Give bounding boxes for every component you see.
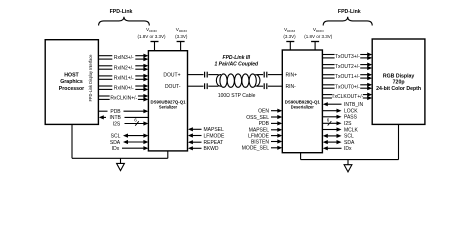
wire RxIN2+/- differential pair xyxy=(98,64,148,72)
node FPD-Link label right xyxy=(338,9,361,15)
wire I2S deserializer output bus xyxy=(322,117,352,127)
wire host ground stub xyxy=(71,124,73,158)
svg-text:1 Pair/AC Coupled: 1 Pair/AC Coupled xyxy=(214,61,259,67)
power VDDIO deserializer label xyxy=(304,27,333,39)
svg-text:PDB: PDB xyxy=(110,109,121,115)
power VDDIO deserializer pin xyxy=(311,42,319,51)
svg-text:(3.3V): (3.3V) xyxy=(283,34,296,39)
wire OEN deserializer input xyxy=(258,109,282,115)
power VDDIO serializer label xyxy=(137,27,166,39)
svg-text:TxOUT0+/-: TxOUT0+/- xyxy=(335,84,360,90)
wire serializer ground stub xyxy=(167,151,169,158)
wire SDA deserializer bidirectional xyxy=(323,140,355,146)
svg-text:INTB_IN: INTB_IN xyxy=(344,102,364,108)
svg-text:VDDIO: VDDIO xyxy=(313,27,325,33)
wire LFMODE serializer input xyxy=(188,133,225,139)
svg-text:SCL: SCL xyxy=(344,134,354,140)
cable 100-ohm STP twisted pair xyxy=(216,74,260,87)
pin DOUT- label xyxy=(165,84,181,90)
svg-text:MCLK: MCLK xyxy=(344,127,359,133)
svg-text:OSS_SEL: OSS_SEL xyxy=(246,115,269,121)
wire LFMODE deserializer input xyxy=(248,133,282,139)
power VDD33 deserializer pin xyxy=(286,42,294,51)
wire SCL deserializer bidirectional xyxy=(323,134,354,140)
svg-text:I2S: I2S xyxy=(113,121,121,127)
svg-text:720p: 720p xyxy=(393,80,405,86)
power VDDIO serializer pin xyxy=(151,42,159,51)
svg-text:PASS: PASS xyxy=(344,115,358,121)
wire BKWD serializer input xyxy=(188,146,219,152)
wire DOUT- line left xyxy=(188,85,204,87)
svg-text:Processor: Processor xyxy=(59,86,84,92)
svg-text:Deserializer: Deserializer xyxy=(291,105,314,110)
wire RIN+ cable to cap xyxy=(257,74,263,76)
wire display ground stub xyxy=(398,124,400,159)
wire LOCK deserializer output xyxy=(322,109,358,115)
block U1 HOST Graphics Processor xyxy=(45,40,98,125)
pin RIN- label xyxy=(286,84,297,90)
svg-text:FPD-Link Display Interface: FPD-Link Display Interface xyxy=(88,54,93,101)
svg-text:TxCLKOUT+/-: TxCLKOUT+/- xyxy=(331,94,363,100)
wire left ground rail xyxy=(72,157,168,159)
svg-text:DOUT-: DOUT- xyxy=(165,84,181,90)
wire BISTEN deserializer input xyxy=(251,139,282,145)
svg-text:100Ω STP Cable: 100Ω STP Cable xyxy=(218,93,256,99)
wire RIN- line right xyxy=(268,85,282,87)
node FPD-Link brace left xyxy=(99,17,150,26)
svg-text:FPD-Link III: FPD-Link III xyxy=(223,55,251,61)
svg-text:Graphics: Graphics xyxy=(60,79,83,85)
power VDD33 serializer pin xyxy=(177,42,185,51)
svg-text:(3.3V): (3.3V) xyxy=(175,34,188,39)
wire OSS_SEL deserializer input xyxy=(246,115,282,121)
power VDD33 deserializer label xyxy=(283,27,296,39)
wire IDx serializer input xyxy=(112,146,149,152)
svg-text:RIN-: RIN- xyxy=(286,84,297,90)
svg-text:LFMODE: LFMODE xyxy=(204,133,226,139)
power VDD33 serializer label xyxy=(175,27,188,39)
svg-text:IDx: IDx xyxy=(344,146,352,152)
block U2 DS90UB927Q-Q1 Serializer xyxy=(148,51,187,151)
svg-text:BISTEN: BISTEN xyxy=(251,139,269,145)
svg-text:(1.8V or 3.3V): (1.8V or 3.3V) xyxy=(304,34,333,39)
svg-text:TxOUT1+/-: TxOUT1+/- xyxy=(335,74,360,80)
wire PDB deserializer input xyxy=(259,121,283,127)
svg-text:24-bit Color Depth: 24-bit Color Depth xyxy=(376,86,421,92)
svg-text:REPEAT: REPEAT xyxy=(204,140,224,146)
svg-text:BKWD: BKWD xyxy=(204,146,219,152)
svg-text:VDDIO: VDDIO xyxy=(146,27,158,33)
wire DOUT- to cable xyxy=(208,85,218,87)
svg-text:RxIN0+/-: RxIN0+/- xyxy=(114,86,134,92)
wire TxOUT3+/- differential pair xyxy=(322,52,372,60)
wire TxOUT0+/- differential pair xyxy=(322,83,372,91)
capacitor C1 AC coupling DOUT+ xyxy=(205,72,208,78)
wire PDB serializer input xyxy=(98,109,148,115)
wire I2S serializer input bus xyxy=(113,118,149,128)
node FPD-Link label left xyxy=(110,9,133,15)
wire MODE_SEL deserializer input xyxy=(242,146,283,152)
svg-text:VDD33: VDD33 xyxy=(284,27,295,33)
svg-text:TxOUT2+/-: TxOUT2+/- xyxy=(335,64,360,70)
svg-text:(1.8V or 3.3V): (1.8V or 3.3V) xyxy=(137,34,166,39)
svg-text:OEN: OEN xyxy=(258,109,269,115)
svg-text:TxOUT3+/-: TxOUT3+/- xyxy=(335,54,360,60)
wire deserializer ground stub xyxy=(300,153,302,160)
svg-text:RxCLKIN+/-: RxCLKIN+/- xyxy=(110,96,137,102)
svg-text:6: 6 xyxy=(327,117,330,122)
wire RIN- cable to cap xyxy=(257,85,263,87)
svg-text:LOCK: LOCK xyxy=(344,109,358,115)
svg-text:RGB Display: RGB Display xyxy=(383,73,415,79)
svg-text:SCL: SCL xyxy=(111,133,121,139)
wire INTB_IN deserializer input xyxy=(323,102,364,108)
svg-text:VDD33: VDD33 xyxy=(176,27,187,33)
wire SCL serializer bidirectional xyxy=(111,133,149,139)
svg-text:Serializer: Serializer xyxy=(159,105,178,110)
svg-text:HOST: HOST xyxy=(64,72,79,78)
svg-text:FPD-Link: FPD-Link xyxy=(110,9,133,15)
wire IDx deserializer input xyxy=(323,146,352,152)
wire RxIN0+/- differential pair xyxy=(98,84,148,92)
svg-text:IDx: IDx xyxy=(112,146,120,152)
node FPD-Link III cable labels xyxy=(214,55,259,99)
wire MCLK deserializer output xyxy=(322,127,358,133)
pin DOUT+ label xyxy=(163,72,180,78)
capacitor C4 AC coupling RIN- xyxy=(264,83,267,89)
node FPD-Link brace right xyxy=(323,17,372,26)
wire RxIN1+/- differential pair xyxy=(98,74,148,82)
svg-text:MODE_SEL: MODE_SEL xyxy=(242,146,269,152)
svg-text:RxIN2+/-: RxIN2+/- xyxy=(114,65,134,71)
block U4 RGB Display xyxy=(372,39,425,124)
svg-text:6: 6 xyxy=(134,118,137,123)
svg-text:I2S: I2S xyxy=(344,121,352,127)
wire PASS deserializer output xyxy=(322,115,357,121)
block U3 DS90UB928Q-Q1 Deserializer xyxy=(282,50,322,153)
ground right GND symbol xyxy=(344,160,352,172)
svg-text:DOUT+: DOUT+ xyxy=(163,72,180,78)
ground left GND symbol xyxy=(117,158,125,170)
wire DOUT+ line left xyxy=(188,74,204,76)
wire REPEAT serializer input xyxy=(188,140,223,146)
wire TxCLKOUT+/- differential pair xyxy=(322,93,372,101)
svg-text:PDB: PDB xyxy=(259,121,270,127)
svg-text:MAPSEL: MAPSEL xyxy=(204,127,225,133)
wire MAPSEL deserializer input xyxy=(249,128,283,134)
svg-text:FPD-Link: FPD-Link xyxy=(338,9,361,15)
svg-text:INTB: INTB xyxy=(110,115,122,121)
wire TxOUT2+/- differential pair xyxy=(322,63,372,71)
wire RxCLKIN+/- differential pair xyxy=(98,94,148,102)
capacitor C3 AC coupling RIN+ xyxy=(264,72,267,78)
pin RIN+ label xyxy=(286,72,298,78)
wire RIN+ line right xyxy=(268,74,282,76)
svg-text:RIN+: RIN+ xyxy=(286,72,298,78)
wire RxIN3+/- differential pair xyxy=(98,54,148,62)
wire SDA serializer bidirectional xyxy=(110,140,149,146)
svg-text:RxIN1+/-: RxIN1+/- xyxy=(114,75,134,81)
capacitor C2 AC coupling DOUT- xyxy=(205,83,208,89)
wire INTB serializer output xyxy=(99,115,149,121)
svg-text:SDA: SDA xyxy=(110,140,121,146)
wire DOUT+ to cable xyxy=(208,74,218,76)
wire right ground rail xyxy=(301,159,399,161)
wire TxOUT1+/- differential pair xyxy=(322,73,372,81)
wire MAPSEL serializer input xyxy=(188,127,224,133)
svg-text:SDA: SDA xyxy=(344,140,355,146)
svg-text:RxIN3+/-: RxIN3+/- xyxy=(114,55,134,61)
